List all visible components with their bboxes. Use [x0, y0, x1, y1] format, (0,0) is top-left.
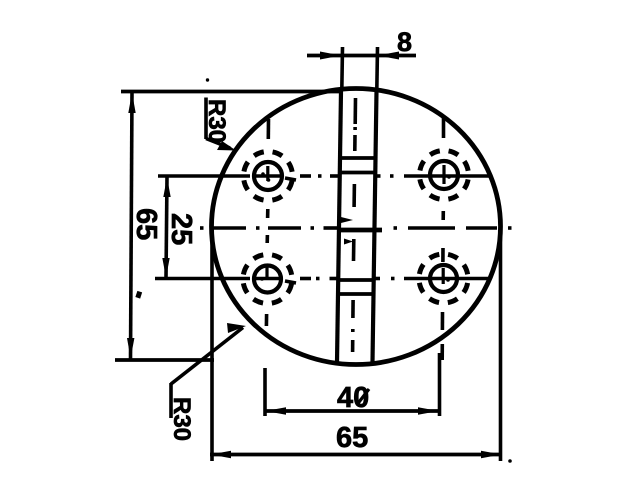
speck at bottom right [508, 459, 512, 463]
dimension 40: dimension line [265, 409, 439, 413]
spot-face dashed circle at H4 [419, 254, 468, 303]
plate outline (circular hinge body) [212, 89, 501, 365]
dimension 40: arrow right [418, 407, 439, 414]
radius leader R30 top: shelf [204, 98, 208, 140]
dimension 25: value label (rotated) [165, 213, 197, 245]
spot-face dashed circle at H1 [244, 152, 293, 201]
dimension 65 bottom: value label [336, 422, 368, 454]
dimension 40: arrow left [266, 407, 287, 414]
pin centerline (vertical dash-dot in strip) [353, 98, 356, 352]
hole H4 lower-right [430, 265, 457, 292]
spot-face dashed circle at H3 [243, 255, 292, 304]
dimension 65 bottom: arrow right [481, 451, 502, 458]
dimension 8 extension line right [375, 47, 379, 91]
radius leader R30 bottom: arrowhead [227, 323, 246, 333]
dimension 65 left: arrow down [127, 338, 134, 359]
knuckle division line center [339, 228, 383, 233]
svg-text:R30: R30 [203, 99, 230, 143]
dimension 40: right extension line [438, 353, 442, 416]
dimension 65 left: value label (rotated) [130, 208, 162, 240]
svg-text:25: 25 [165, 213, 197, 245]
radius label R30 top (rotated) [203, 99, 230, 143]
knuckle division line pair upper [340, 158, 377, 173]
radius leader R30 bottom: leader line [171, 328, 243, 385]
radius leader R30 bottom: shelf [169, 383, 173, 418]
hinge knuckle strip right edge [373, 91, 377, 362]
upper hole row centerline [158, 176, 490, 180]
lower hole row centerline [155, 279, 488, 284]
spot-face dashed circle at H2 [420, 151, 469, 200]
dimension 25: arrow down [162, 258, 169, 278]
radius leader R30 top: leader line [206, 139, 230, 149]
speck above top extension [206, 78, 209, 81]
hole H1 upper-left [254, 162, 282, 190]
main horizontal centerline [200, 226, 512, 230]
dimension 40: value label [337, 382, 369, 414]
dimension 40: left extension line [263, 368, 267, 416]
dimension 25: arrow up [163, 178, 170, 198]
radius label R30 bottom (rotated) [168, 397, 195, 441]
hole H3 lower-left [254, 266, 281, 293]
knuckle division line pair lower [338, 280, 375, 294]
dimension 8 (knuckle width) extension line left [340, 47, 344, 91]
radius leader R30 top: arrowhead [217, 141, 236, 151]
dimension 65 bottom: right extension line [499, 232, 503, 461]
svg-text:65: 65 [336, 422, 368, 454]
svg-text:40: 40 [337, 382, 369, 414]
dimension 65 bottom: left extension line [210, 234, 214, 461]
hole H2 upper-right [430, 161, 458, 189]
dimension 65 left: arrow up [128, 93, 135, 114]
speck near left dimension [135, 291, 142, 299]
dimension 8 arrow left [320, 52, 341, 60]
dimension 25: dimension line [166, 177, 167, 278]
dimension 65 bottom: dimension line [210, 453, 502, 457]
dimension 65 left: dimension line [131, 92, 133, 359]
dimension 65 left: bottom extension line [115, 358, 214, 362]
left hole column centerline [266, 119, 268, 326]
small arrow mark on pin centerline lower [344, 239, 353, 245]
dimension 8 line [307, 54, 416, 58]
dimension 8 arrow right [378, 52, 399, 60]
dimension 65 left: top extension line [121, 90, 342, 94]
right hole column centerline [442, 118, 443, 360]
small arrow mark on pin centerline upper [339, 217, 353, 224]
svg-text:R30: R30 [168, 397, 195, 441]
hinge knuckle strip left edge [337, 91, 341, 362]
dimension 65 bottom: arrow left [211, 451, 232, 458]
dimension 8 value label [397, 27, 412, 57]
svg-text:8: 8 [397, 27, 412, 57]
svg-text:65: 65 [130, 208, 162, 240]
